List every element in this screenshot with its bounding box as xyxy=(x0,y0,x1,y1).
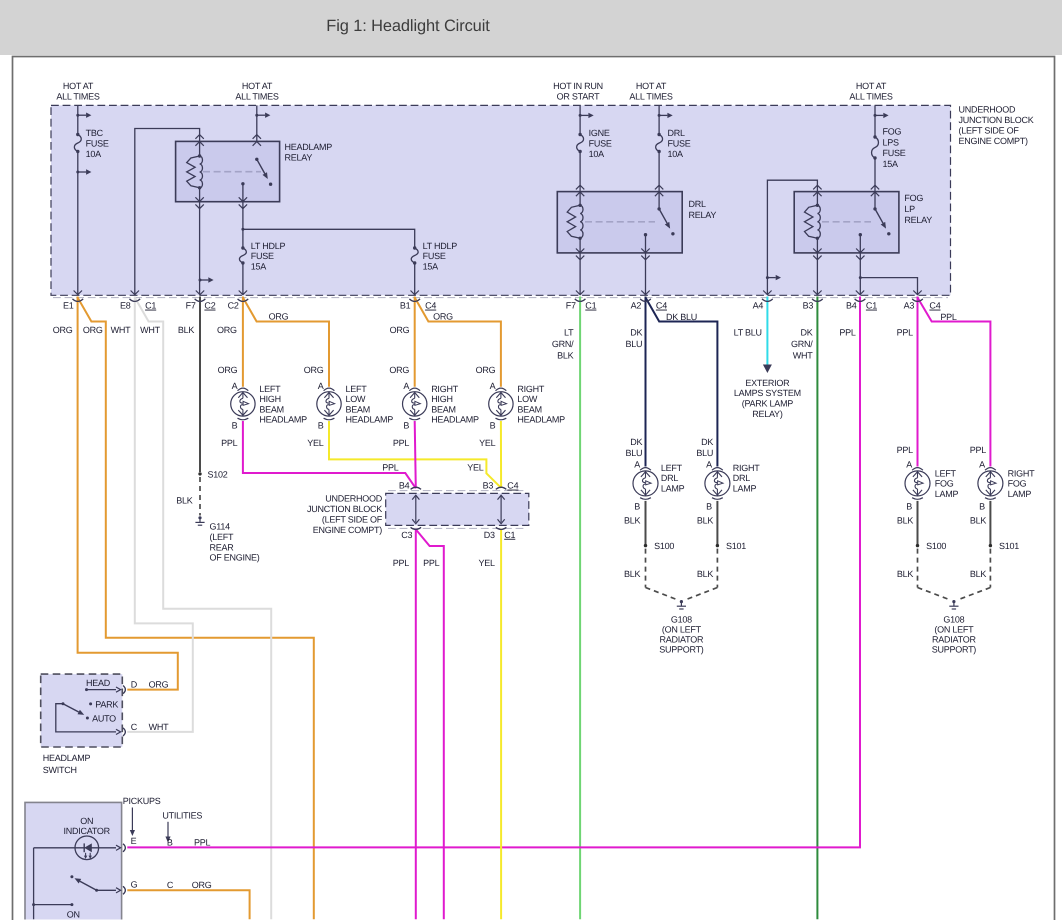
relay K2 DRL RELAY box xyxy=(557,192,682,253)
svg-text:ORG: ORG xyxy=(217,325,237,335)
svg-text:FUSE: FUSE xyxy=(668,139,691,149)
svg-text:LAMP: LAMP xyxy=(661,483,685,493)
connector arc repaint C pin xyxy=(123,728,125,736)
connector arc repaint G pin xyxy=(123,886,125,894)
tap arrow on headlamp feed xyxy=(255,114,258,117)
splice S100 fog xyxy=(916,544,919,547)
arrow to exterior lamps system xyxy=(763,365,772,374)
lamp DS4 RIGHT LOW BEAM HEADLAMP xyxy=(496,388,507,391)
svg-text:HEADLAMP: HEADLAMP xyxy=(43,753,91,763)
ground G108 fog xyxy=(952,600,955,603)
connector arc repaint small block bottom xyxy=(411,527,421,529)
headlamp switch common wire to C pin xyxy=(56,704,116,732)
svg-text:YEL: YEL xyxy=(479,438,496,448)
svg-text:ENGINE COMPT): ENGINE COMPT) xyxy=(313,525,383,535)
svg-text:OF ENGINE): OF ENGINE) xyxy=(210,553,260,563)
svg-text:S101: S101 xyxy=(999,541,1019,551)
splice S100 DRL xyxy=(644,544,647,547)
svg-text:TBC: TBC xyxy=(86,128,104,138)
svg-text:DK: DK xyxy=(701,437,713,447)
svg-text:RELAY: RELAY xyxy=(285,153,313,163)
pin symbol at x=242.9 xyxy=(239,291,247,295)
svg-text:E8: E8 xyxy=(120,301,131,311)
svg-text:BLK: BLK xyxy=(557,350,574,360)
wire BLK dashed left DRL xyxy=(645,549,647,588)
wire YEL right low beam to B3 of small block xyxy=(500,421,502,488)
wire PPL from C3 jog down xyxy=(416,529,444,919)
svg-text:EXTERIOR: EXTERIOR xyxy=(745,378,790,388)
chevrons at FOG relay switch top xyxy=(871,185,879,189)
wire FOG coil to B3 pin xyxy=(816,238,818,294)
dashed actuation link DRL relay xyxy=(585,221,655,223)
wire PPL from B4 to indicator E pin xyxy=(127,297,860,848)
svg-text:FOG: FOG xyxy=(904,193,923,203)
chevrons at DRL relay coil bottom xyxy=(576,249,584,253)
svg-text:ORG: ORG xyxy=(304,365,324,375)
fuse TBC FUSE 10A xyxy=(74,135,81,152)
label AUTO contact xyxy=(86,717,89,720)
svg-text:C4: C4 xyxy=(929,301,940,311)
chevrons at headlamp relay coil bottom xyxy=(195,197,203,201)
svg-text:C4: C4 xyxy=(507,481,518,491)
svg-text:FUSE: FUSE xyxy=(251,251,274,261)
svg-text:S100: S100 xyxy=(926,541,946,551)
tap arrow on IGNE wire xyxy=(579,114,582,117)
svg-text:B: B xyxy=(403,421,409,431)
wire BLK dashed to G114 xyxy=(199,477,201,516)
svg-text:A: A xyxy=(706,460,712,470)
FOG relay switch feed xyxy=(874,192,876,209)
wire IGNE feed xyxy=(579,105,581,134)
svg-text:DK: DK xyxy=(800,327,812,337)
chevrons at DRL relay output xyxy=(641,249,649,253)
wire BLK right DRL to S101 xyxy=(716,501,718,544)
wire ORG from B1 jog to right low beam xyxy=(415,298,501,387)
svg-text:G: G xyxy=(131,879,138,889)
splice S102 xyxy=(198,472,201,475)
wire TBC feed xyxy=(77,105,79,134)
svg-text:B4: B4 xyxy=(399,481,410,491)
svg-text:LT BLU: LT BLU xyxy=(734,327,762,337)
svg-text:PPL: PPL xyxy=(940,312,957,322)
svg-text:LT HDLP: LT HDLP xyxy=(423,241,458,251)
svg-text:BLK: BLK xyxy=(970,516,987,526)
wire PPL left high beam to B4 of small block xyxy=(243,421,416,488)
wire BLK left DRL to S100 xyxy=(645,501,647,544)
svg-text:B: B xyxy=(232,421,238,431)
wire BLK from F7 xyxy=(199,297,201,473)
svg-text:A2: A2 xyxy=(631,301,642,311)
svg-text:BLK: BLK xyxy=(697,516,714,526)
svg-text:C3: C3 xyxy=(401,530,412,540)
connector arc repaint D pin xyxy=(123,686,125,694)
svg-text:JUNCTION BLOCK: JUNCTION BLOCK xyxy=(307,504,382,514)
svg-text:ORG: ORG xyxy=(390,325,410,335)
svg-text:ORG: ORG xyxy=(83,325,103,335)
svg-text:LOW: LOW xyxy=(517,394,538,404)
underhood junction block U1 xyxy=(51,105,951,295)
svg-text:BEAM: BEAM xyxy=(259,404,284,414)
svg-text:(ON LEFT: (ON LEFT xyxy=(934,624,974,634)
svg-text:LAMP: LAMP xyxy=(1008,489,1032,499)
svg-text:HEADLAMP: HEADLAMP xyxy=(517,415,565,425)
svg-text:(PARK LAMP: (PARK LAMP xyxy=(742,399,794,409)
svg-text:BLK: BLK xyxy=(624,516,641,526)
svg-text:YEL: YEL xyxy=(307,438,324,448)
svg-text:UTILITIES: UTILITIES xyxy=(162,810,202,820)
wire headlamp relay switch feed xyxy=(256,105,258,141)
svg-text:G108: G108 xyxy=(943,614,964,624)
DRL relay switch blade xyxy=(659,209,667,223)
svg-text:S102: S102 xyxy=(208,470,228,480)
wire LT BLU from A4 xyxy=(766,297,768,365)
svg-text:JUNCTION BLOCK: JUNCTION BLOCK xyxy=(959,115,1034,125)
svg-text:DRL: DRL xyxy=(689,199,706,209)
svg-text:ORG: ORG xyxy=(53,325,73,335)
svg-text:B3: B3 xyxy=(483,481,494,491)
svg-text:FUSE: FUSE xyxy=(589,139,612,149)
svg-text:RIGHT: RIGHT xyxy=(431,384,459,394)
svg-text:LEFT: LEFT xyxy=(661,463,683,473)
wire PPL right high beam to B4 of small block xyxy=(415,421,416,488)
junction FOG output split xyxy=(859,276,862,279)
FOG relay switch pivot xyxy=(873,207,876,210)
wire DK BLU from A2 straight to left DRL lamp xyxy=(645,297,647,467)
svg-text:BLK: BLK xyxy=(697,569,714,579)
svg-text:B4: B4 xyxy=(846,301,857,311)
C pin connector arc xyxy=(123,728,125,736)
svg-text:PPL: PPL xyxy=(194,837,211,847)
relay K3 FOG LP RELAY box xyxy=(794,192,899,253)
svg-text:B: B xyxy=(979,501,985,511)
arrow UTILITIES to B xyxy=(167,822,169,837)
svg-text:LP: LP xyxy=(904,204,915,214)
svg-text:PPL: PPL xyxy=(839,327,856,337)
svg-text:DK: DK xyxy=(630,437,642,447)
wire E8 to headlamp relay coil xyxy=(135,129,200,295)
svg-text:PPL: PPL xyxy=(393,558,410,568)
pin symbol at x=77.8 xyxy=(74,291,82,295)
wire BLK dashed diagonal left fog to G108 xyxy=(918,588,950,600)
svg-text:WHT: WHT xyxy=(793,350,813,360)
svg-text:PPL: PPL xyxy=(221,438,238,448)
svg-text:ALL TIMES: ALL TIMES xyxy=(56,91,100,101)
svg-text:PARK: PARK xyxy=(95,699,118,709)
svg-text:WHT: WHT xyxy=(140,325,160,335)
tap arrow on A4 wire xyxy=(766,276,769,279)
FOG relay switch throw contact xyxy=(887,232,890,235)
svg-text:A: A xyxy=(232,381,238,391)
lamp DS3 RIGHT HIGH BEAM HEADLAMP xyxy=(409,388,420,391)
wire FOG output to A3 pin xyxy=(860,278,917,295)
fuse LT HDLP FUSE 15A left xyxy=(239,248,246,263)
wire BLK dashed right fog xyxy=(989,549,991,588)
pin arc B3 top xyxy=(496,487,506,489)
chevrons at DRL relay switch top xyxy=(655,185,663,189)
wire ORG from G pin xyxy=(127,890,249,919)
FOG relay coil xyxy=(816,204,818,207)
svg-text:LT HDLP: LT HDLP xyxy=(251,241,286,251)
svg-text:HEADLAMP: HEADLAMP xyxy=(431,415,479,425)
svg-text:HEADLAMP: HEADLAMP xyxy=(259,415,307,425)
svg-text:HIGH: HIGH xyxy=(431,394,453,404)
left vertical wire in indicator box xyxy=(33,848,35,920)
lamp DS2 LEFT LOW BEAM HEADLAMP xyxy=(324,388,335,391)
svg-text:LEFT: LEFT xyxy=(259,384,281,394)
svg-text:RELAY): RELAY) xyxy=(752,409,783,419)
wire left LT HDLP branch xyxy=(242,229,244,248)
svg-text:A4: A4 xyxy=(753,301,764,311)
svg-text:G108: G108 xyxy=(671,614,692,624)
svg-text:B: B xyxy=(318,421,324,431)
svg-text:DK: DK xyxy=(630,327,642,337)
svg-text:FUSE: FUSE xyxy=(883,148,906,158)
FOG relay switch output xyxy=(859,233,862,236)
wire FOG relay coil to A4 routing xyxy=(767,180,817,295)
svg-text:REAR: REAR xyxy=(210,542,235,552)
svg-text:BLK: BLK xyxy=(970,569,987,579)
wire BLK right fog to S101 xyxy=(989,501,991,544)
wire ORG from C2 jog to left low beam xyxy=(243,298,329,387)
pin symbol at x=917.5 xyxy=(913,291,921,295)
svg-text:DRL: DRL xyxy=(733,473,750,483)
wire BLK dashed left fog xyxy=(917,549,919,588)
headlamp relay switch blade xyxy=(257,159,265,173)
wire DRL fuse feed xyxy=(658,105,660,134)
svg-text:LAMP: LAMP xyxy=(733,483,757,493)
svg-text:F7: F7 xyxy=(566,301,576,311)
svg-text:YEL: YEL xyxy=(467,462,484,472)
svg-text:A: A xyxy=(318,381,324,391)
wire DRL coil top xyxy=(579,192,581,206)
svg-text:WHT: WHT xyxy=(111,325,131,335)
wire ORG from C2 straight to left high beam xyxy=(242,297,244,387)
svg-text:PPL: PPL xyxy=(897,445,914,455)
svg-text:HIGH: HIGH xyxy=(259,394,281,404)
svg-text:BLK: BLK xyxy=(624,569,641,579)
svg-text:ORG: ORG xyxy=(218,365,238,375)
wire WHT from E8 straight xyxy=(127,297,193,732)
svg-text:D: D xyxy=(131,679,138,689)
svg-text:B: B xyxy=(167,837,173,847)
connector arc repaint small block top xyxy=(411,487,421,489)
tap arrow on FOG wire xyxy=(874,114,877,117)
fuse LT HDLP FUSE 15A right xyxy=(411,248,418,263)
svg-text:ORG: ORG xyxy=(269,311,289,321)
pin symbol at x=580.1 xyxy=(576,291,584,295)
DRL relay switch throw contact xyxy=(671,232,674,235)
svg-text:10A: 10A xyxy=(668,149,684,159)
svg-text:ORG: ORG xyxy=(389,365,409,375)
chevrons at FOG relay coil bottom xyxy=(813,249,821,253)
svg-text:PPL: PPL xyxy=(393,438,410,448)
svg-text:BLK: BLK xyxy=(897,516,914,526)
chevrons at FOG relay coil top xyxy=(813,185,821,189)
headlamp relay switch throw contact xyxy=(269,183,272,186)
svg-text:ALL TIMES: ALL TIMES xyxy=(849,91,893,101)
svg-text:C1: C1 xyxy=(585,301,596,311)
pin arc C3 bottom xyxy=(411,527,421,529)
svg-text:BLU: BLU xyxy=(696,448,713,458)
svg-text:ON: ON xyxy=(80,816,93,826)
svg-text:B: B xyxy=(706,501,712,511)
svg-text:ALL TIMES: ALL TIMES xyxy=(235,91,279,101)
svg-text:15A: 15A xyxy=(251,261,267,271)
chevrons at headlamp relay coil top xyxy=(195,135,203,139)
wire LT GRN/BLK from F7 C1 xyxy=(579,297,581,920)
headlamp relay switch output xyxy=(241,182,244,185)
small block secondary face line top xyxy=(388,490,527,492)
wire BLK dashed right DRL xyxy=(716,549,718,588)
svg-text:LAMP: LAMP xyxy=(935,489,959,499)
lamp FOG left LEFT FOG LAMP xyxy=(912,468,923,471)
svg-text:BLK: BLK xyxy=(897,569,914,579)
tap arrow on DRL wire xyxy=(658,114,661,117)
wire through LED xyxy=(34,847,116,849)
svg-text:OR START: OR START xyxy=(557,91,600,101)
indicator switch pivot and blade xyxy=(95,889,98,892)
lamp FOG right RIGHT FOG LAMP xyxy=(985,468,996,471)
svg-text:(LEFT SIDE OF: (LEFT SIDE OF xyxy=(322,515,383,525)
svg-text:FOG: FOG xyxy=(883,126,902,136)
svg-text:C1: C1 xyxy=(866,301,877,311)
ground G114 xyxy=(198,516,201,519)
svg-text:IGNE: IGNE xyxy=(589,128,610,138)
svg-text:ORG: ORG xyxy=(433,311,453,321)
svg-text:C1: C1 xyxy=(504,530,515,540)
svg-text:DK BLU: DK BLU xyxy=(666,312,697,322)
svg-text:(LEFT: (LEFT xyxy=(210,532,235,542)
underhood junction block U2 (small) xyxy=(386,493,529,525)
svg-text:RELAY: RELAY xyxy=(904,215,932,225)
svg-text:10A: 10A xyxy=(589,149,605,159)
DRL relay switch pivot xyxy=(657,207,660,210)
fuse DRL FUSE 10A xyxy=(656,135,663,152)
svg-text:Fig 1: Headlight Circuit: Fig 1: Headlight Circuit xyxy=(326,17,490,35)
svg-text:LPS: LPS xyxy=(883,137,900,147)
svg-text:HEAD: HEAD xyxy=(86,678,111,688)
chevrons at FOG relay output xyxy=(856,249,864,253)
svg-text:LT: LT xyxy=(564,327,574,337)
lamp DRL left LEFT DRL LAMP xyxy=(640,468,651,471)
headlamp relay switch pivot xyxy=(255,158,258,161)
svg-text:LAMPS SYSTEM: LAMPS SYSTEM xyxy=(734,388,801,398)
wire BLK dashed diagonal left to G108 xyxy=(646,588,678,600)
arrow PICKUPS to E xyxy=(131,808,133,831)
svg-text:FOG: FOG xyxy=(1008,479,1027,489)
svg-text:C2: C2 xyxy=(204,301,215,311)
label PARK contact xyxy=(89,702,92,705)
svg-text:SUPPORT): SUPPORT) xyxy=(932,644,977,654)
svg-text:B1: B1 xyxy=(400,301,411,311)
pin symbol at x=817.4 xyxy=(813,291,821,295)
svg-text:ORG: ORG xyxy=(149,679,169,689)
svg-text:PPL: PPL xyxy=(382,462,399,472)
svg-text:RELAY: RELAY xyxy=(689,210,717,220)
svg-text:HOT AT: HOT AT xyxy=(856,81,887,91)
title bar xyxy=(0,0,1062,55)
tap arrow 1 on TBC wire xyxy=(76,114,79,117)
lamp DS1 LEFT HIGH BEAM HEADLAMP xyxy=(238,388,249,391)
svg-text:LOW: LOW xyxy=(346,394,367,404)
svg-text:ALL TIMES: ALL TIMES xyxy=(629,91,673,101)
pin symbol at x=645.5 xyxy=(641,291,649,295)
pin symbol at x=134.8 xyxy=(131,291,139,295)
svg-text:PPL: PPL xyxy=(897,327,914,337)
ground G108 DRL xyxy=(680,600,683,603)
LED symbol xyxy=(84,843,92,852)
svg-text:C: C xyxy=(167,880,174,890)
headlamp relay switch feed chevrons xyxy=(253,135,261,139)
svg-text:S101: S101 xyxy=(726,541,746,551)
pass-through arrow B3-D3 xyxy=(500,497,502,523)
svg-text:C1: C1 xyxy=(145,301,156,311)
svg-text:10A: 10A xyxy=(86,149,102,159)
svg-text:DRL: DRL xyxy=(661,473,678,483)
wire FOG LPS fuse feed xyxy=(874,105,876,137)
dashed actuation link FOG relay xyxy=(822,221,871,223)
wire DK GRN/WHT from B3 xyxy=(816,297,818,920)
svg-text:B: B xyxy=(634,501,640,511)
DRL relay coil xyxy=(579,204,581,207)
svg-text:PICKUPS: PICKUPS xyxy=(123,796,161,806)
svg-text:INDICATOR: INDICATOR xyxy=(63,826,110,836)
svg-text:YEL: YEL xyxy=(479,558,496,568)
svg-text:WHT: WHT xyxy=(149,722,169,732)
svg-text:HOT IN RUN: HOT IN RUN xyxy=(553,81,603,91)
svg-text:15A: 15A xyxy=(883,159,899,169)
svg-text:AUTO: AUTO xyxy=(92,713,116,723)
svg-text:C4: C4 xyxy=(656,301,667,311)
splice S101 fog xyxy=(989,544,992,547)
svg-text:HOT AT: HOT AT xyxy=(63,81,94,91)
svg-text:HEADLAMP: HEADLAMP xyxy=(285,142,333,152)
svg-text:E: E xyxy=(131,836,137,846)
svg-text:B: B xyxy=(490,421,496,431)
svg-text:F7: F7 xyxy=(186,301,196,311)
svg-text:B: B xyxy=(906,501,912,511)
wire PPL from C3 straight down xyxy=(415,529,417,920)
svg-text:C2: C2 xyxy=(228,301,239,311)
LED emission arrows xyxy=(85,853,87,858)
svg-text:D3: D3 xyxy=(484,530,495,540)
svg-text:HOT AT: HOT AT xyxy=(636,81,667,91)
junction headlamp output split xyxy=(241,228,244,231)
pin symbol at x=767.4 xyxy=(763,291,771,295)
connector arc repaint row xyxy=(73,299,84,302)
lamp DRL right RIGHT DRL LAMP xyxy=(712,468,723,471)
svg-text:PPL: PPL xyxy=(423,558,440,568)
small block secondary face line bottom xyxy=(388,527,527,529)
pin symbol at x=414.7 xyxy=(411,291,419,295)
svg-text:ENGINE COMPT): ENGINE COMPT) xyxy=(959,136,1029,146)
svg-text:BEAM: BEAM xyxy=(346,404,371,414)
svg-text:BLU: BLU xyxy=(626,339,643,349)
svg-text:SWITCH: SWITCH xyxy=(43,765,77,775)
pin symbol at x=860 xyxy=(856,291,864,295)
svg-text:A: A xyxy=(403,381,409,391)
switch SW2 ON indicator box xyxy=(25,802,122,919)
wire headlamp relay coil to F7 xyxy=(199,188,201,295)
svg-text:LEFT: LEFT xyxy=(346,384,368,394)
svg-text:PPL: PPL xyxy=(970,445,987,455)
svg-text:C4: C4 xyxy=(425,301,436,311)
wire BLK dashed diagonal right fog to G108 xyxy=(958,588,991,600)
svg-text:BLK: BLK xyxy=(178,325,195,335)
svg-text:(LEFT SIDE OF: (LEFT SIDE OF xyxy=(959,125,1020,135)
wire YEL from D3 down xyxy=(500,529,502,920)
tap arrow 2 on TBC wire xyxy=(76,171,79,174)
